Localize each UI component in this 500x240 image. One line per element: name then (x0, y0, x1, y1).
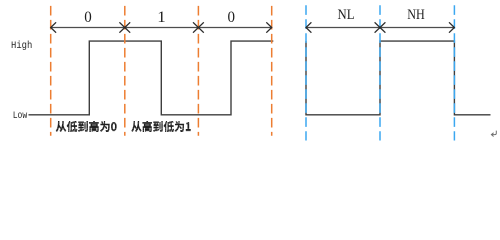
svg-text:0: 0 (228, 9, 236, 26)
svg-text:0: 0 (84, 9, 92, 26)
svg-text:NL: NL (338, 7, 355, 23)
svg-text:NH: NH (407, 7, 425, 23)
svg-text:1: 1 (157, 9, 166, 26)
svg-text:High: High (11, 40, 32, 52)
svg-text:Low: Low (13, 111, 28, 122)
